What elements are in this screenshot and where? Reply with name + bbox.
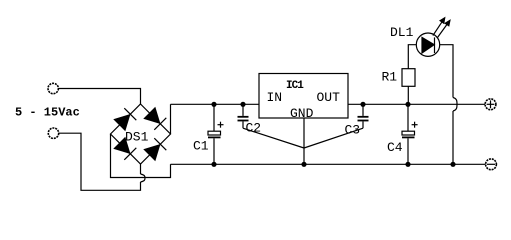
svg-text:R1: R1 [382,70,398,85]
svg-text:IC1: IC1 [286,80,304,92]
svg-text:C2: C2 [246,121,262,136]
junction dot R1/C4 [405,102,410,107]
wire bridge right corner riser [170,104,172,134]
capacitor C3 [362,104,364,116]
wire C2 to GND node [243,128,304,148]
positive rail left section [171,103,260,105]
output terminal minus [486,159,497,170]
capacitor C4 [407,104,409,131]
svg-text:DS1: DS1 [125,130,149,145]
junction dot C2 top [240,102,245,107]
diode D3 bar [124,148,136,160]
wire hop over positive rail [453,98,457,112]
LED DL1 [416,33,439,56]
bridge rectifier DS1 diamond [111,104,171,164]
capacitor C2 [242,104,244,116]
junction dot C4 bottom [405,162,410,167]
junction dot LED return [450,162,455,167]
diode D3 triangle [114,138,129,153]
diode D2 triangle [144,108,159,123]
svg-text:GND: GND [290,106,314,121]
GND pin wire [303,118,305,164]
junction dot C1 bottom [211,162,216,167]
svg-text:C4: C4 [387,140,403,155]
diode D4 bar [154,138,166,150]
wire bridge left corner to ground rail [111,134,171,178]
svg-text:IN: IN [267,90,283,105]
output terminal plus [485,99,496,110]
AC terminal lower [48,128,58,138]
wire C3 to GND node [304,128,363,148]
diode D2 bar [154,118,166,130]
svg-text:C1: C1 [193,139,209,154]
svg-text:OUT: OUT [317,90,341,105]
svg-text:5 - 15Vac: 5 - 15Vac [15,106,80,120]
wire hop over negative wire [141,174,146,182]
junction dot C3 top [360,102,365,107]
wire LED cathode down [440,45,453,98]
junction dot GND rail [301,162,306,167]
op-amp IC1 box [259,74,348,119]
capacitor C1 [213,104,215,131]
positive rail right section [348,103,485,105]
wire upper AC horizontal [58,89,141,105]
junction dot C1 top [211,102,216,107]
diode D1 bar [124,108,136,120]
wire bridge bottom riser [140,164,142,174]
ground rail [171,163,486,165]
svg-text:DL1: DL1 [390,25,414,40]
AC terminal upper [48,83,58,93]
resistor R1 [402,69,415,87]
diode D4 triangle [144,145,159,160]
svg-text:C3: C3 [345,123,361,138]
diode D1 triangle [114,115,129,130]
wire lower AC to bridge bottom [58,133,140,190]
